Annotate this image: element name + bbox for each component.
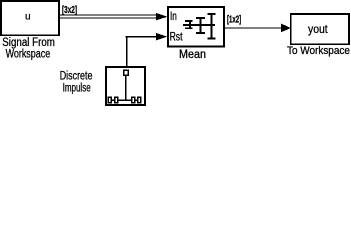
label Discrete Impulse (block name) (60, 70, 93, 94)
Discrete Impulse block icon (stem plot) (108, 70, 141, 102)
svg-text:Signal From: Signal From (2, 37, 55, 49)
svg-text:Workspace: Workspace (6, 49, 51, 61)
wire: Signal From Workspace output to Mean In (double line, matrix signal) (60, 13, 168, 20)
label u (Signal From Workspace block content) (25, 11, 31, 23)
svg-text:In: In (170, 11, 177, 23)
port label In (170, 11, 177, 23)
svg-text:Discrete: Discrete (60, 70, 93, 82)
svg-text:[1x2]: [1x2] (227, 14, 241, 25)
block Discrete Impulse (106, 67, 145, 105)
block Signal From Workspace (1, 1, 59, 35)
svg-text:Rst: Rst (170, 31, 184, 43)
wire: Mean output to To Workspace (225, 24, 291, 33)
label Mean (block name) (179, 49, 206, 61)
svg-text:Mean: Mean (179, 49, 206, 61)
label Signal From Workspace (block name) (2, 37, 55, 60)
port label Rst (170, 31, 184, 43)
signal dimension label [3x2] (62, 5, 77, 16)
svg-text:To Workspace: To Workspace (287, 45, 350, 57)
block Mean (168, 7, 224, 46)
block To Workspace (291, 14, 349, 44)
svg-text:Impulse: Impulse (63, 83, 91, 95)
wire: Discrete Impulse output up to Mean Rst (126, 33, 168, 67)
signal dimension label [1x2] (227, 14, 241, 25)
svg-text:yout: yout (308, 22, 328, 36)
label To Workspace (block name) (287, 45, 350, 57)
svg-text:u: u (25, 11, 31, 23)
Mean block icon (error bars with mean line) (183, 14, 216, 39)
label yout (To Workspace block content) (308, 22, 328, 36)
